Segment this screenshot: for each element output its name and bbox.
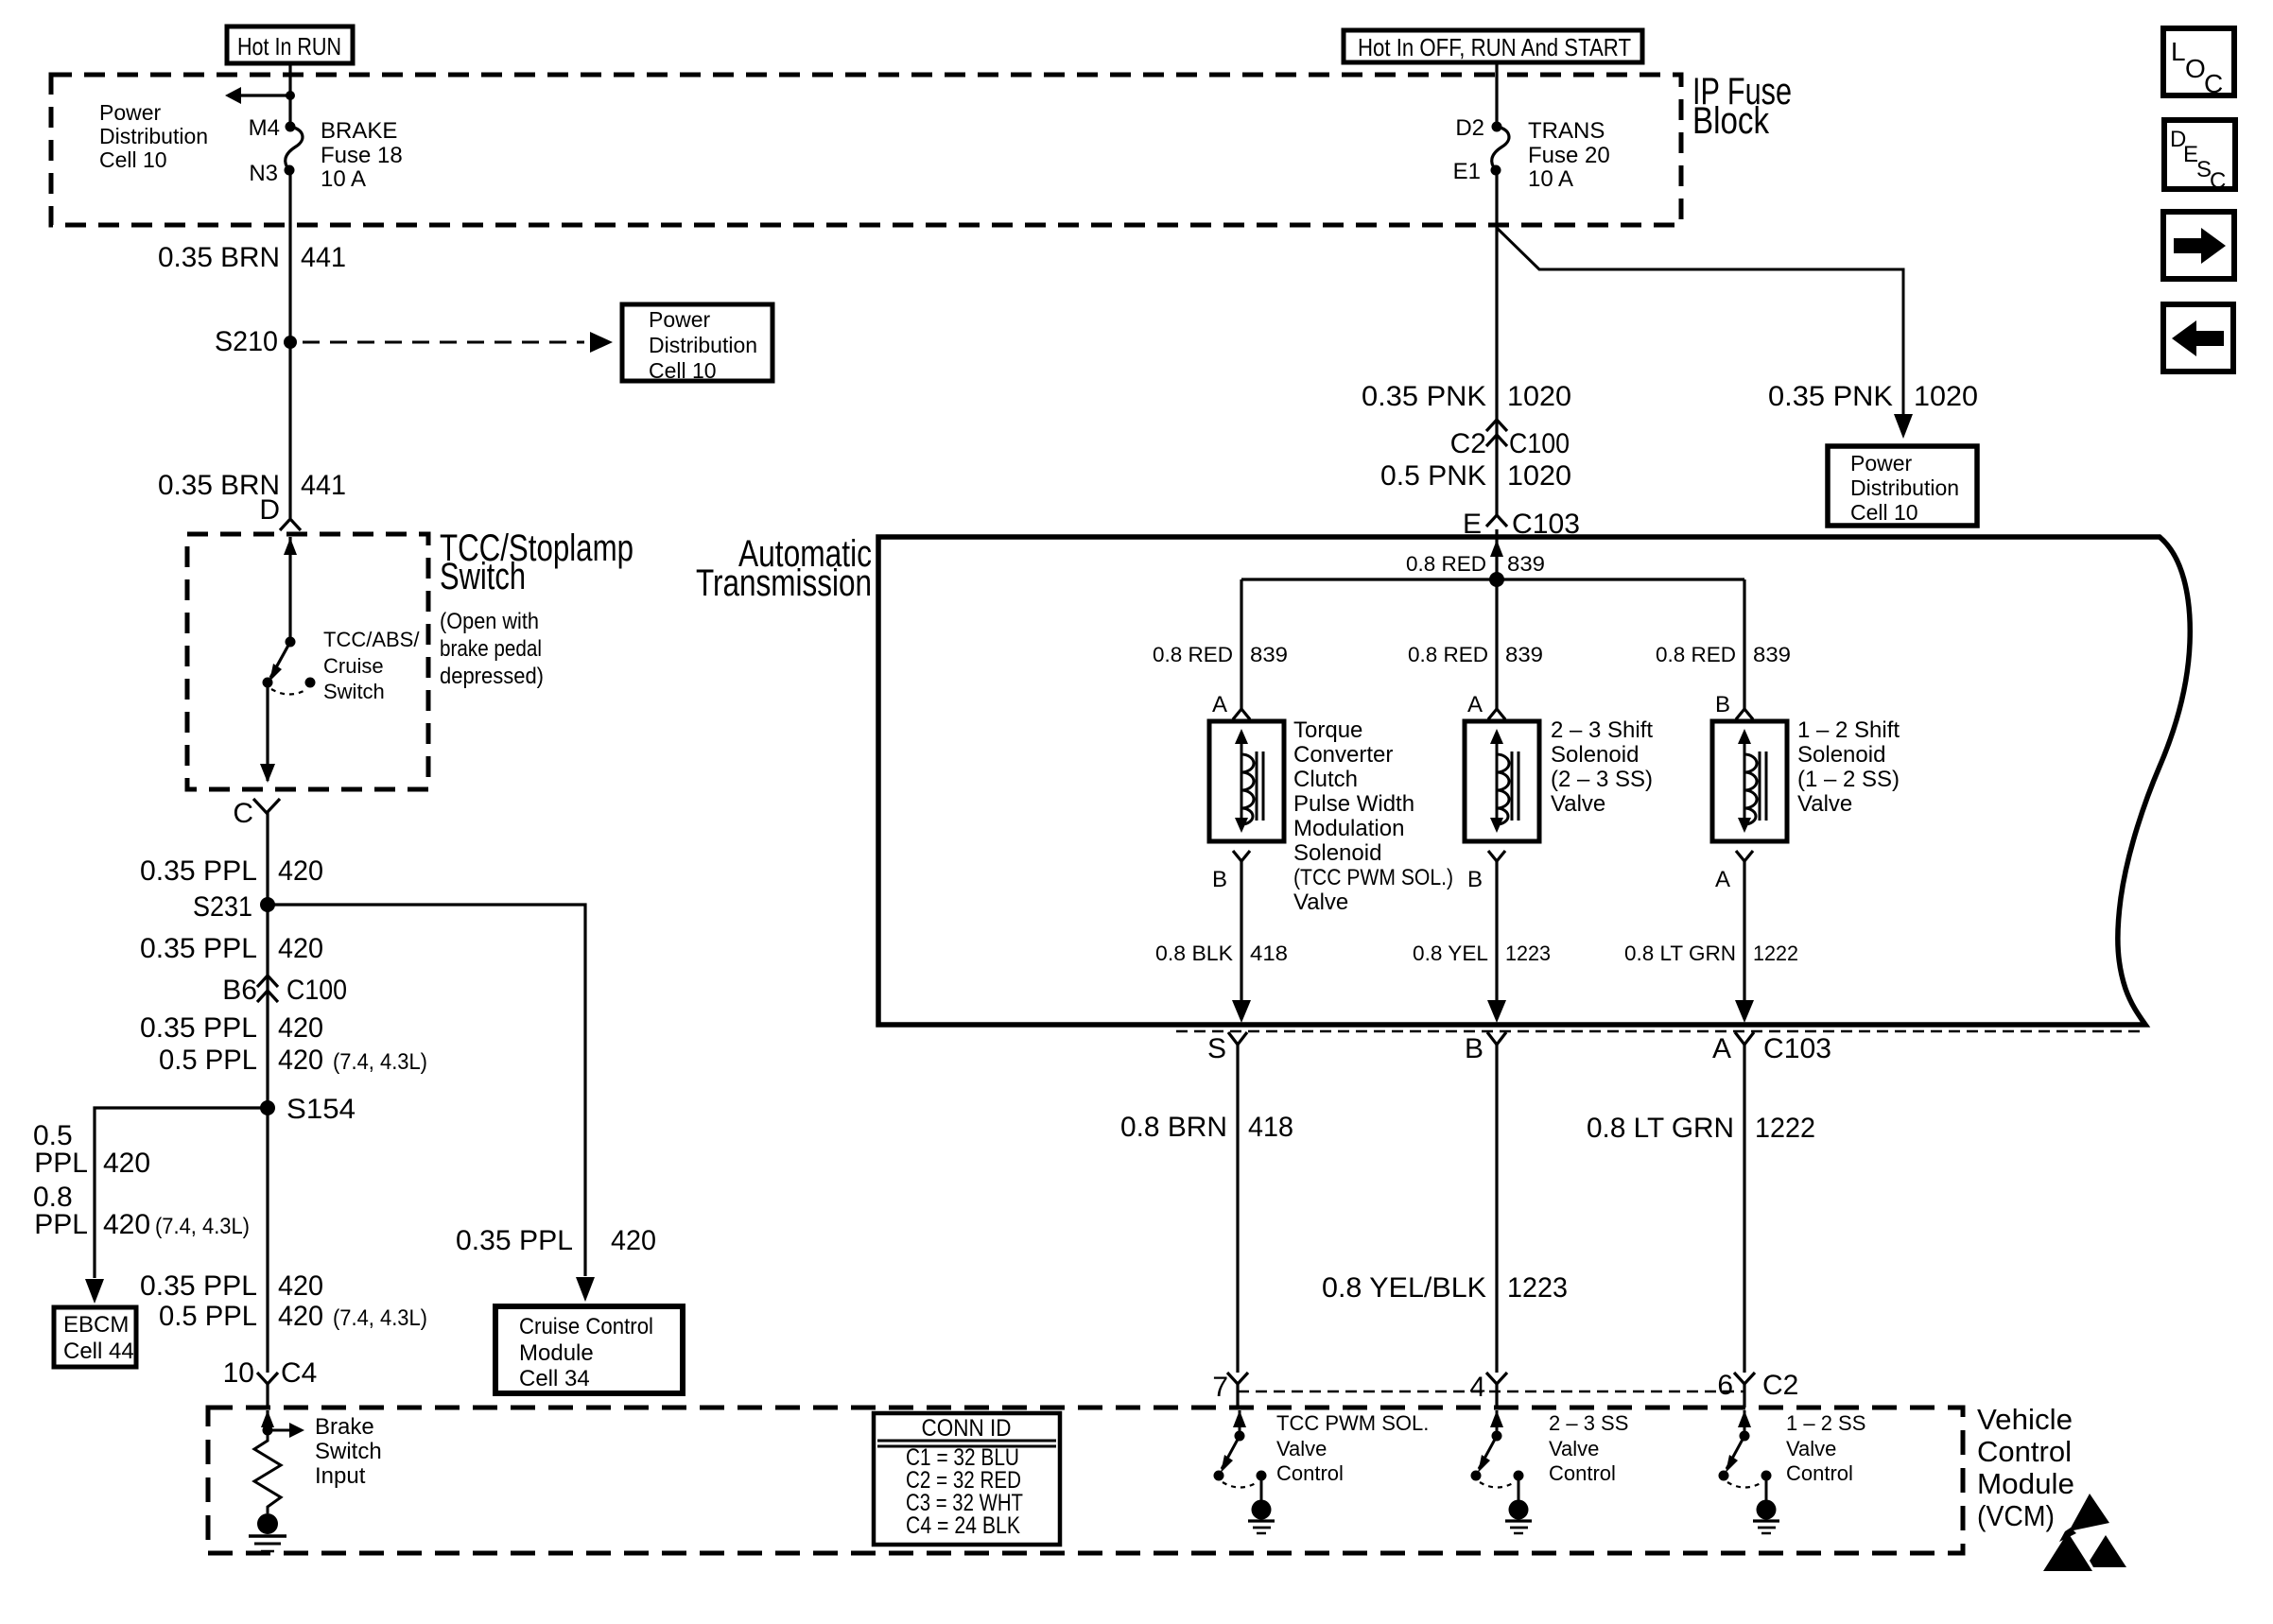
svg-text:0.8 RED: 0.8 RED	[1153, 643, 1233, 666]
svg-text:C100: C100	[1509, 428, 1570, 459]
svg-text:420: 420	[278, 1270, 323, 1302]
svg-text:Power: Power	[649, 307, 711, 332]
Power Distribution Cell 10 box (mid)	[622, 304, 772, 381]
svg-text:0.35 PPL: 0.35 PPL	[140, 933, 257, 964]
svg-text:0.5 PPL: 0.5 PPL	[159, 1045, 257, 1076]
lower contact dot	[263, 678, 273, 688]
svg-text:1020: 1020	[1914, 381, 1978, 412]
label Hot In RUN box	[227, 26, 353, 63]
ESD warning triangle lower pair	[2043, 1532, 2126, 1571]
svg-text:Vehicle: Vehicle	[1977, 1403, 2073, 1436]
svg-text:D: D	[259, 494, 280, 526]
connector caret pin B solenoid 1	[1233, 851, 1250, 861]
svg-text:B6: B6	[222, 975, 257, 1006]
svg-text:Control: Control	[1549, 1461, 1616, 1485]
svg-text:Fuse 20: Fuse 20	[1528, 143, 1610, 168]
svg-text:Valve: Valve	[1549, 1437, 1599, 1460]
switch 2 wire to ground	[1518, 1476, 1520, 1501]
Cruise Control Module Cell 34 box	[495, 1306, 683, 1393]
svg-text:Control: Control	[1786, 1461, 1853, 1485]
switch 1 wire to ground	[1260, 1476, 1263, 1501]
svg-text:TCC/ABS/: TCC/ABS/	[323, 628, 420, 651]
svg-text:Hot In OFF, RUN And START: Hot In OFF, RUN And START	[1358, 33, 1631, 61]
brake input arrow right	[268, 1429, 291, 1432]
svg-text:0.35 BRN: 0.35 BRN	[158, 242, 280, 273]
arrow to Power Distribution (left)	[238, 94, 290, 96]
ground symbol brake input	[249, 1534, 286, 1538]
Power Distribution Cell 10 box (right)	[1828, 446, 1977, 526]
svg-text:839: 839	[1753, 643, 1791, 666]
svg-text:Cell 44: Cell 44	[63, 1339, 134, 1364]
VCM connector carets 7 4 6 C2	[1227, 1373, 1248, 1384]
solenoid 1 coil symbol	[1241, 737, 1243, 824]
dashed arrow S210 to Power Distribution	[303, 341, 584, 344]
svg-text:B: B	[1212, 867, 1227, 892]
svg-text:(VCM): (VCM)	[1977, 1499, 2055, 1532]
fuse TRANS Fuse 20 10A	[1492, 122, 1502, 132]
svg-text:Valve: Valve	[1276, 1437, 1327, 1460]
ground symbol switch 1	[1248, 1519, 1275, 1522]
svg-text:C103: C103	[1763, 1033, 1831, 1064]
svg-text:0.8 LT GRN: 0.8 LT GRN	[1624, 942, 1736, 965]
svg-text:0.8 RED: 0.8 RED	[1656, 643, 1736, 666]
Automatic Transmission outline with torn edge	[878, 537, 2190, 1025]
svg-text:420: 420	[103, 1209, 150, 1240]
svg-text:0.8 BRN: 0.8 BRN	[1120, 1112, 1227, 1143]
svg-text:Valve: Valve	[1293, 890, 1348, 915]
second contact dot	[305, 678, 316, 688]
svg-text:441: 441	[301, 242, 346, 273]
connector caret at D	[280, 519, 301, 530]
svg-text:C2: C2	[1762, 1370, 1798, 1401]
solenoid 1 box	[1209, 721, 1284, 841]
svg-text:0.35 PPL: 0.35 PPL	[140, 1012, 257, 1044]
svg-text:0.8 LT GRN: 0.8 LT GRN	[1587, 1113, 1734, 1144]
IP fuse block dashed box	[51, 75, 1681, 225]
switch 1 upper contact dot	[1235, 1431, 1245, 1442]
svg-text:0.8 RED: 0.8 RED	[1408, 643, 1488, 666]
connector caret at C	[253, 799, 280, 813]
VCM driver switch 2 up arrow	[1496, 1410, 1499, 1436]
solenoid 2 box	[1465, 721, 1539, 841]
switch 2 upper contact dot	[1492, 1431, 1502, 1442]
icon LOC box	[2163, 28, 2234, 95]
icon DESC box	[2164, 120, 2235, 189]
connector caret pin A solenoid 3	[1736, 851, 1753, 861]
svg-text:839: 839	[1507, 552, 1545, 576]
solenoid 3 box	[1712, 721, 1787, 841]
svg-text:10 A: 10 A	[321, 166, 366, 192]
svg-text:1020: 1020	[1507, 381, 1571, 412]
connector carets at C103 S B A	[1228, 1032, 1247, 1045]
wire bus to TCC solenoid	[1240, 579, 1242, 709]
TCC/Stoplamp Switch dashed box	[187, 534, 428, 789]
svg-text:Clutch: Clutch	[1293, 767, 1358, 792]
VCM driver switch 3 up arrow	[1744, 1410, 1746, 1436]
svg-text:0.35 PPL: 0.35 PPL	[140, 855, 257, 887]
switch 2 output contact dot	[1514, 1471, 1524, 1481]
svg-text:10 A: 10 A	[1528, 166, 1573, 192]
switch blade	[270, 642, 290, 678]
svg-text:Distribution: Distribution	[1850, 475, 1959, 500]
svg-text:7: 7	[1212, 1372, 1228, 1403]
ESD warning triangle upper	[2059, 1494, 2109, 1542]
svg-text:L: L	[2171, 37, 2186, 66]
svg-text:0.8 YEL/BLK: 0.8 YEL/BLK	[1322, 1272, 1486, 1304]
connector caret pin A solenoid 1	[1233, 709, 1250, 719]
svg-text:0.5 PPL: 0.5 PPL	[159, 1301, 257, 1332]
EBCM Cell 44 box	[54, 1307, 136, 1367]
svg-text:Valve: Valve	[1786, 1437, 1836, 1460]
connector E C103	[1486, 515, 1507, 527]
svg-text:Distribution: Distribution	[99, 124, 208, 148]
svg-text:N3: N3	[249, 161, 278, 186]
svg-text:A: A	[1715, 867, 1730, 892]
svg-text:Pulse Width: Pulse Width	[1293, 791, 1414, 817]
switch 1 output contact dot	[1257, 1471, 1267, 1481]
brake switch input wire with up arrow	[266, 1410, 269, 1430]
svg-text:420: 420	[103, 1148, 150, 1179]
svg-text:(7.4, 4.3L): (7.4, 4.3L)	[155, 1214, 250, 1239]
svg-text:(1 – 2 SS): (1 – 2 SS)	[1797, 767, 1900, 792]
connector C103 dashed line	[1176, 1030, 2146, 1033]
svg-text:Control: Control	[1977, 1435, 2072, 1468]
svg-text:TRANS: TRANS	[1528, 118, 1605, 144]
svg-text:0.8 BLK: 0.8 BLK	[1155, 942, 1233, 965]
upper contact dot	[286, 637, 296, 648]
svg-text:420: 420	[611, 1225, 656, 1256]
connector caret pin B solenoid 2	[1488, 851, 1505, 861]
svg-text:Transmission: Transmission	[696, 562, 872, 604]
svg-text:brake pedal: brake pedal	[440, 636, 542, 662]
splice S231	[260, 897, 275, 912]
svg-text:(7.4, 4.3L): (7.4, 4.3L)	[333, 1049, 427, 1075]
svg-text:0.35 PPL: 0.35 PPL	[456, 1225, 573, 1256]
svg-text:D2: D2	[1455, 115, 1484, 141]
switch 1 blade	[1222, 1436, 1240, 1469]
ground symbol switch 3	[1753, 1519, 1779, 1522]
svg-text:0.8 RED: 0.8 RED	[1406, 552, 1486, 576]
svg-text:Valve: Valve	[1551, 791, 1605, 817]
svg-text:EBCM: EBCM	[63, 1312, 129, 1338]
Vehicle Control Module dashed box	[208, 1408, 1963, 1553]
switch 3 lower contact dot	[1719, 1471, 1729, 1481]
svg-text:418: 418	[1250, 942, 1288, 965]
svg-text:S231: S231	[193, 891, 252, 923]
wire solenoid 1 to transmission connector	[1240, 861, 1242, 1000]
svg-text:Input: Input	[315, 1463, 366, 1489]
wire B to VCM pin 4	[1495, 1045, 1498, 1373]
svg-text:B: B	[1467, 867, 1483, 892]
ground ball switch 2	[1509, 1500, 1529, 1520]
switch 1 dashed throw arc	[1223, 1482, 1258, 1488]
svg-text:Switch: Switch	[315, 1439, 382, 1464]
svg-text:C100: C100	[286, 975, 347, 1006]
svg-text:Cruise: Cruise	[323, 654, 384, 678]
wire S154 to EBCM	[95, 1108, 268, 1278]
svg-text:0.35 PNK: 0.35 PNK	[1768, 381, 1893, 412]
connector B6 C100	[257, 976, 278, 987]
wire C to VCM connector	[266, 811, 269, 1373]
839 bus wire	[1241, 578, 1744, 580]
CONN ID table	[874, 1413, 1060, 1545]
svg-text:Cell 10: Cell 10	[1850, 500, 1918, 525]
svg-text:1222: 1222	[1755, 1113, 1815, 1144]
icon arrow-left box	[2163, 304, 2233, 371]
icon arrow-right box	[2163, 212, 2234, 279]
svg-text:Module: Module	[519, 1340, 594, 1366]
svg-text:420: 420	[278, 1045, 323, 1076]
switch 3 output contact dot	[1761, 1471, 1772, 1481]
junction dot at arrow	[286, 91, 295, 100]
svg-text:0.35 PPL: 0.35 PPL	[140, 1270, 257, 1302]
svg-text:C: C	[2210, 168, 2226, 194]
ground ball switch 3	[1757, 1500, 1777, 1520]
svg-text:Switch: Switch	[323, 680, 385, 703]
wire bus down to 2-3 solenoid	[1495, 579, 1498, 709]
svg-text:6: 6	[1717, 1370, 1733, 1401]
svg-text:Cruise Control: Cruise Control	[519, 1314, 653, 1339]
switch 3 dashed throw arc	[1727, 1482, 1762, 1488]
connector caret pin B solenoid 3	[1736, 709, 1753, 719]
label Hot In OFF RUN And START box	[1344, 30, 1642, 62]
svg-text:S210: S210	[215, 326, 278, 357]
svg-text:C4: C4	[281, 1357, 317, 1389]
wire into transmission with up arrow	[1495, 529, 1498, 579]
svg-text:PPL: PPL	[34, 1209, 88, 1240]
svg-text:(2 – 3 SS): (2 – 3 SS)	[1551, 767, 1653, 792]
svg-text:1223: 1223	[1505, 942, 1551, 965]
svg-text:BRAKE: BRAKE	[321, 118, 397, 144]
svg-text:4: 4	[1469, 1372, 1485, 1403]
svg-text:Power: Power	[1850, 451, 1913, 475]
svg-text:Brake: Brake	[315, 1414, 374, 1440]
connector C2 C100	[1486, 420, 1507, 431]
svg-text:0.5 PNK: 0.5 PNK	[1380, 460, 1486, 492]
svg-text:Valve: Valve	[1797, 791, 1852, 817]
switch 2 dashed throw arc	[1480, 1482, 1515, 1488]
switch wire upper with up arrow	[288, 537, 291, 642]
svg-text:Cell 10: Cell 10	[649, 358, 717, 383]
svg-text:B: B	[1715, 692, 1730, 717]
switch wire lower with down arrow	[266, 682, 269, 781]
svg-text:B: B	[1465, 1033, 1484, 1064]
connector caret pin A solenoid 2	[1488, 709, 1505, 719]
svg-text:C: C	[233, 798, 253, 829]
solenoid 3 coil symbol	[1744, 737, 1746, 824]
svg-text:1 – 2 SS: 1 – 2 SS	[1786, 1411, 1865, 1435]
svg-text:2 – 3 Shift: 2 – 3 Shift	[1551, 717, 1653, 743]
svg-text:A: A	[1712, 1033, 1731, 1064]
svg-text:420: 420	[278, 1012, 323, 1044]
svg-text:M4: M4	[249, 115, 280, 141]
switch throw dashed arc	[271, 689, 307, 695]
wire bus to 1-2 solenoid	[1743, 579, 1745, 709]
svg-text:O: O	[2185, 54, 2206, 83]
svg-text:C2: C2	[1450, 428, 1486, 459]
wire A to VCM pin 6	[1743, 1045, 1745, 1373]
svg-text:420: 420	[278, 855, 323, 887]
wire S231 to Cruise Control Module	[268, 905, 585, 1276]
svg-text:A: A	[1212, 692, 1227, 717]
svg-text:420: 420	[278, 1301, 323, 1332]
wire N3 down to D connector	[288, 170, 291, 518]
svg-text:Solenoid: Solenoid	[1551, 742, 1639, 768]
brake input junction dot	[263, 1425, 273, 1436]
svg-text:C4 = 24 BLK: C4 = 24 BLK	[906, 1512, 1020, 1539]
svg-text:C: C	[2204, 69, 2223, 98]
svg-text:1020: 1020	[1507, 460, 1571, 492]
svg-text:TCC PWM SOL.: TCC PWM SOL.	[1276, 1411, 1429, 1435]
switch 3 wire to ground	[1765, 1476, 1768, 1501]
junction dot 839 bus	[1489, 572, 1504, 587]
svg-text:1 – 2 Shift: 1 – 2 Shift	[1797, 717, 1900, 743]
svg-text:1223: 1223	[1507, 1272, 1568, 1304]
svg-text:10: 10	[223, 1357, 254, 1389]
svg-text:2 – 3 SS: 2 – 3 SS	[1549, 1411, 1628, 1435]
svg-text:S154: S154	[286, 1094, 356, 1125]
connector C2 dashed line	[1238, 1391, 1744, 1393]
svg-text:(TCC PWM SOL.): (TCC PWM SOL.)	[1293, 865, 1453, 890]
svg-text:420: 420	[278, 933, 323, 964]
svg-text:Hot In RUN: Hot In RUN	[237, 32, 341, 60]
svg-text:Switch: Switch	[440, 556, 526, 597]
svg-text:depressed): depressed)	[440, 664, 544, 689]
svg-text:839: 839	[1505, 643, 1543, 666]
splice S154	[260, 1100, 275, 1115]
svg-text:Cell 10: Cell 10	[99, 147, 167, 172]
wire E1 down to C103	[1495, 170, 1498, 515]
wire solenoid 3 to transmission connector	[1743, 861, 1745, 1000]
svg-text:Solenoid: Solenoid	[1797, 742, 1885, 768]
switch 3 upper contact dot	[1740, 1431, 1750, 1442]
svg-text:441: 441	[301, 470, 346, 501]
solenoid 2 coil symbol	[1496, 737, 1499, 824]
svg-text:Cell 34: Cell 34	[519, 1366, 590, 1391]
svg-text:PPL: PPL	[34, 1148, 88, 1179]
svg-text:CONN ID: CONN ID	[922, 1415, 1012, 1442]
branch wire to Power Distribution (right)	[1497, 228, 1903, 414]
svg-text:Power: Power	[99, 100, 162, 125]
svg-text:Module: Module	[1977, 1467, 2074, 1500]
switch 1 lower contact dot	[1214, 1471, 1224, 1481]
ground ball brake input	[257, 1513, 278, 1534]
svg-text:Block: Block	[1692, 100, 1770, 142]
svg-text:Distribution: Distribution	[649, 333, 757, 357]
svg-text:839: 839	[1250, 643, 1288, 666]
ground symbol switch 2	[1505, 1519, 1532, 1522]
splice S210	[284, 336, 297, 349]
connector 10 C4	[257, 1373, 278, 1384]
svg-text:0.8 YEL: 0.8 YEL	[1413, 942, 1488, 965]
resistor brake switch input	[254, 1430, 281, 1513]
svg-text:Modulation: Modulation	[1293, 816, 1404, 841]
svg-text:A: A	[1467, 692, 1483, 717]
svg-text:Solenoid: Solenoid	[1293, 840, 1381, 866]
wire S to VCM pin 7	[1236, 1045, 1239, 1373]
VCM driver switch 1 up arrow	[1239, 1410, 1241, 1436]
wire solenoid 2 to transmission connector	[1495, 861, 1498, 1000]
wire from Hot In OFF box to fuse D2	[1495, 62, 1498, 127]
switch 2 blade	[1479, 1436, 1497, 1469]
switch 2 lower contact dot	[1471, 1471, 1482, 1481]
svg-text:(7.4, 4.3L): (7.4, 4.3L)	[333, 1305, 427, 1331]
svg-text:418: 418	[1248, 1112, 1293, 1143]
switch 3 blade	[1726, 1436, 1744, 1469]
svg-text:0.35 PNK: 0.35 PNK	[1362, 381, 1486, 412]
svg-text:Converter: Converter	[1293, 742, 1393, 768]
svg-text:E1: E1	[1453, 159, 1481, 184]
svg-text:(Open with: (Open with	[440, 609, 539, 634]
fuse BRAKE Fuse 18 10A	[286, 122, 296, 132]
svg-text:S: S	[1207, 1033, 1226, 1064]
svg-text:1222: 1222	[1753, 942, 1798, 965]
svg-text:Torque: Torque	[1293, 717, 1362, 743]
wire from Hot In RUN to fuse M4	[288, 63, 291, 127]
ground ball switch 1	[1252, 1500, 1272, 1520]
svg-text:Control: Control	[1276, 1461, 1344, 1485]
svg-text:Fuse 18: Fuse 18	[321, 143, 403, 168]
